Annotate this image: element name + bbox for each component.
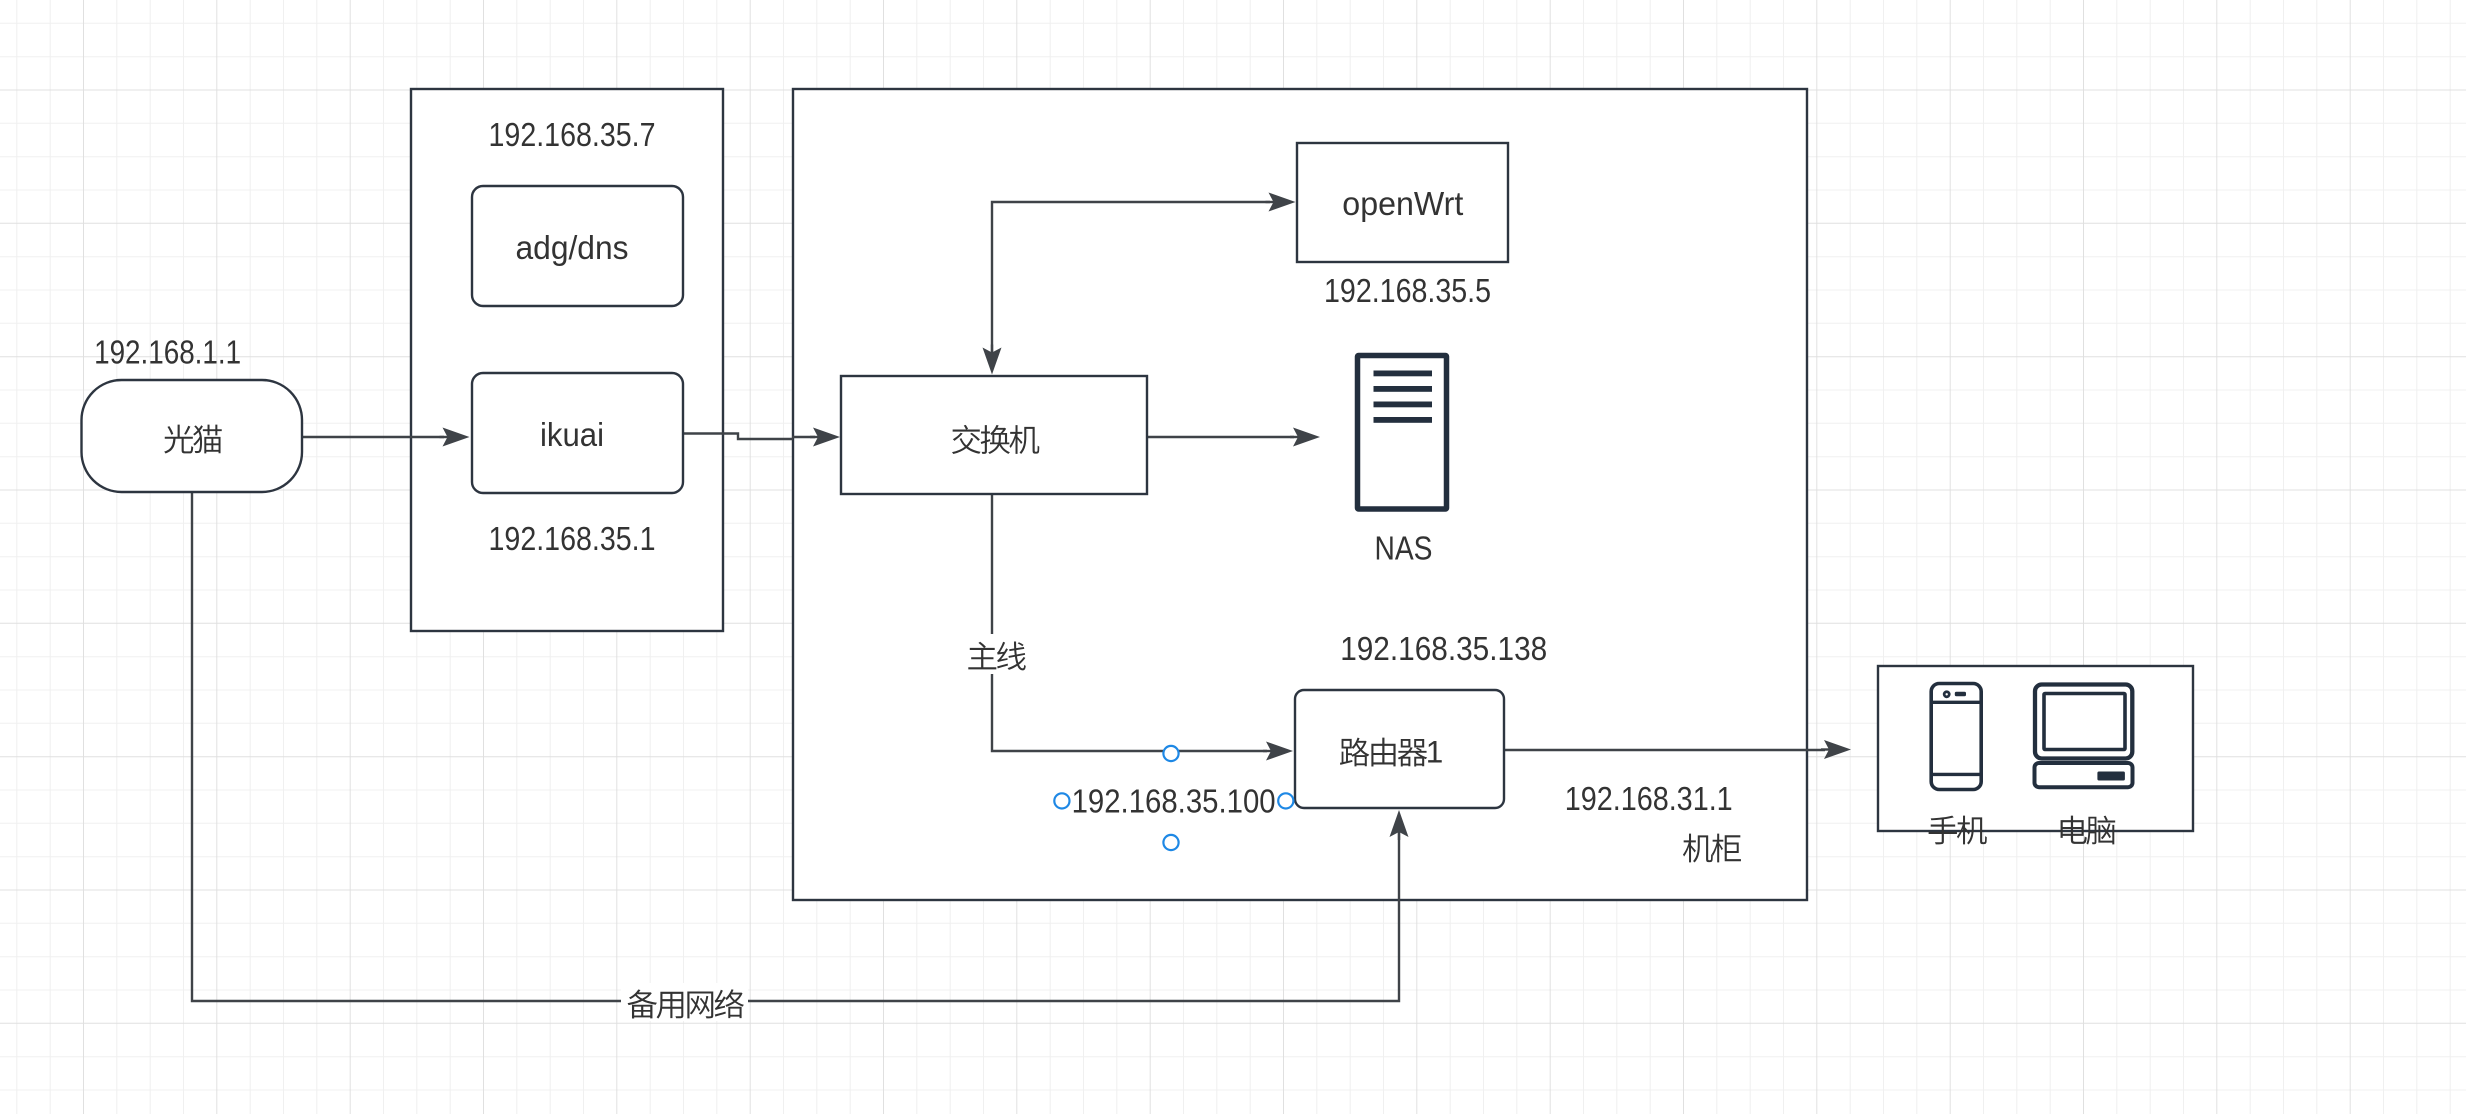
svg-text:192.168.1.1: 192.168.1.1: [94, 334, 241, 371]
arrowhead into 交换机 left: [810, 436, 820, 438]
svg-text:ikuai: ikuai: [540, 416, 604, 453]
connection point 4: [1163, 835, 1178, 850]
icon 电脑 computer: [2035, 685, 2132, 759]
svg-text:192.168.31.1: 192.168.31.1: [1565, 780, 1733, 817]
connection point 1: [1163, 746, 1178, 761]
label background 备用网络: [621, 983, 748, 1021]
label 交换机: [952, 425, 981, 454]
container main cabinet box: [793, 89, 1807, 900]
label 光猫: [164, 425, 193, 454]
svg-text:192.168.35.100: 192.168.35.100: [1072, 783, 1276, 820]
connection point 3: [1278, 793, 1293, 808]
wire ikuai→cabinet edge (jog): [683, 434, 793, 440]
svg-text:NAS: NAS: [1375, 530, 1433, 567]
arrowhead toward NAS: [1290, 436, 1300, 438]
label 主线: [968, 642, 996, 670]
connection point 2: [1054, 793, 1069, 808]
container client devices box: [1878, 666, 2193, 831]
arrowhead down into 交换机 top: [991, 345, 993, 355]
label background 主线: [963, 634, 1028, 674]
svg-text:192.168.35.138: 192.168.35.138: [1340, 630, 1547, 667]
label 电脑: [2061, 816, 2087, 844]
wire cabinet edge→交换机: [792, 436, 815, 438]
wire 主线 交换机→路由器1: [992, 494, 1267, 751]
node 光猫 (stadium): [82, 380, 303, 492]
svg-text:adg/dns: adg/dns: [516, 229, 629, 266]
label 手机: [1929, 816, 1957, 845]
arrowhead up into 路由器1 bottom: [1398, 830, 1400, 840]
label 机柜: [1683, 834, 1713, 863]
arrowhead toward devices box: [1821, 748, 1831, 750]
svg-text:192.168.35.1: 192.168.35.1: [489, 520, 656, 557]
svg-text:openWrt: openWrt: [1342, 185, 1463, 222]
container 192.168.35.7 group box: [411, 89, 723, 631]
svg-text:192.168.35.5: 192.168.35.5: [1324, 272, 1491, 309]
icon 手机 smartphone: [1931, 684, 1981, 790]
wire elbow 交换机↔openWrt: [992, 202, 1270, 363]
label 备用网络: [628, 990, 658, 1019]
icon NAS server tower: [1358, 356, 1447, 510]
label 路由器1: [1340, 738, 1369, 767]
node openWrt: [1297, 143, 1508, 262]
wire 备用网络 光猫→路由器1: [192, 492, 1399, 1001]
node 路由器1 (router): [1295, 690, 1504, 808]
arrowhead into 路由器1 left: [1263, 750, 1273, 752]
wire 光猫→ikuai: [302, 436, 444, 438]
arrowhead into openWrt: [1266, 201, 1276, 203]
node 交换机 (switch): [841, 376, 1147, 494]
arrowhead into ikuai: [440, 436, 450, 438]
node adg/dns: [472, 186, 683, 306]
wire 交换机→NAS: [1147, 436, 1294, 438]
svg-text:192.168.35.7: 192.168.35.7: [489, 116, 656, 153]
wire 路由器1→devices: [1503, 749, 1825, 751]
svg-text:1: 1: [1426, 734, 1444, 770]
node ikuai: [472, 373, 683, 493]
